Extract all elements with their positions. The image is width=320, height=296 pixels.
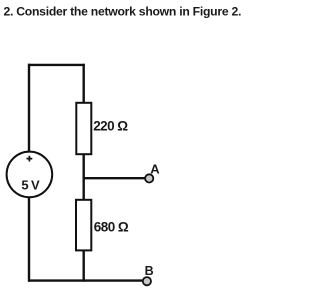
wire source bottom lead [28, 197, 30, 282]
svg-text:5 V: 5 V [21, 177, 40, 192]
wire left vertical from top wire to source top [28, 64, 30, 152]
wire top horizontal [28, 64, 85, 66]
terminal B [143, 277, 151, 285]
svg-text:680 Ω: 680 Ω [94, 219, 129, 234]
resistor R2 680 ohm body [76, 200, 91, 251]
polarity plus mark [27, 156, 33, 162]
wire node to R2 top [82, 178, 84, 200]
resistor R1 220 ohm body [76, 103, 91, 154]
svg-text:220 Ω: 220 Ω [93, 119, 128, 134]
wire R1 top lead [82, 64, 84, 103]
voltage source V1 circle [7, 152, 53, 198]
terminal A [145, 174, 153, 182]
svg-text:2. Consider the network shown: 2. Consider the network shown in Figure … [4, 4, 242, 18]
wire R1 bottom to node [82, 154, 84, 179]
wire branch to terminal A [83, 177, 145, 179]
svg-text:A: A [150, 161, 160, 176]
svg-text:B: B [145, 264, 154, 278]
wire bottom horizontal [28, 279, 143, 281]
wire R2 bottom lead [82, 251, 84, 282]
